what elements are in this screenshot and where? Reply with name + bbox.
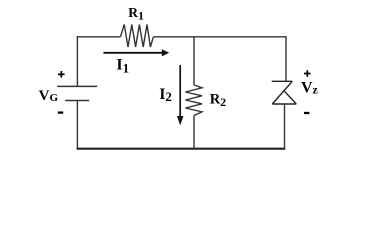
zener diode Vz bent tick / triangle left side xyxy=(272,81,292,104)
svg-text:I1: I1 xyxy=(116,57,129,76)
wire top (node between Vg, R1) xyxy=(77,36,120,38)
svg-text:R1: R1 xyxy=(128,5,144,22)
label + of Vz xyxy=(304,73,311,75)
svg-text:VG: VG xyxy=(39,88,59,104)
label + of VG xyxy=(58,73,65,75)
svg-text:R2: R2 xyxy=(210,92,226,109)
resistor R2 xyxy=(186,85,203,116)
label - of Vz xyxy=(304,112,309,114)
zener diode Vz cathode bar xyxy=(272,80,293,82)
svg-text:I2: I2 xyxy=(159,86,172,104)
wire middle vertical upper xyxy=(193,37,195,85)
wire top right of R1 xyxy=(153,36,286,38)
zener diode Vz triangle base xyxy=(272,103,296,105)
wire middle vertical lower xyxy=(193,116,195,149)
wire left vertical lower xyxy=(76,101,78,149)
zener diode Vz triangle right side xyxy=(284,91,296,104)
wire left vertical upper xyxy=(76,36,78,86)
resistor R1 xyxy=(121,25,154,48)
wire right vertical lower xyxy=(284,104,286,149)
wire bottom xyxy=(77,148,286,150)
battery VG plate short xyxy=(65,100,89,102)
current arrow I2 xyxy=(179,65,181,117)
wire right vertical upper xyxy=(285,37,287,82)
battery VG plate long xyxy=(57,85,97,87)
svg-text:Vz: Vz xyxy=(301,80,318,97)
current arrow I1 xyxy=(103,52,162,54)
label - of VG xyxy=(58,111,63,113)
